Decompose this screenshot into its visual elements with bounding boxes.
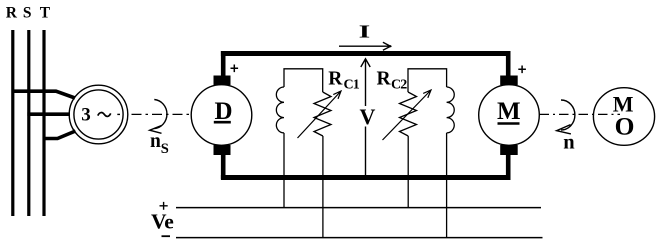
svg-text:R: R <box>6 5 18 22</box>
svg-text:O: O <box>615 111 635 140</box>
generator G1 label D underline <box>214 121 231 124</box>
wire coil2 bottom to Ve- <box>446 133 448 238</box>
rheostat arrow RC1 <box>298 91 342 138</box>
inductor L1 field coil of D <box>276 87 284 133</box>
shaft coupling M to MO dash-dot <box>540 113 621 115</box>
rheostat arrow RC2 <box>383 90 432 140</box>
wire bottom bus armature loop <box>221 175 511 180</box>
wire phase T vertical <box>42 30 45 216</box>
svg-text:C2: C2 <box>391 78 407 93</box>
motor M2 label M underline <box>498 122 520 125</box>
svg-text:I: I <box>359 22 371 41</box>
wire tap T to motor <box>43 131 76 139</box>
wire top bus armature loop <box>221 51 511 56</box>
wire RC2 bottom to Ve+ <box>407 136 409 208</box>
field branch 1 top wire <box>284 69 323 92</box>
svg-text:T: T <box>40 5 51 22</box>
polarity + at M <box>518 66 526 74</box>
rotation arrow n arc <box>561 100 575 130</box>
shaft coupling M1 to G1 dash-dot <box>117 113 120 115</box>
wire riser D top thick <box>221 51 226 77</box>
svg-text:n: n <box>563 132 575 154</box>
svg-text:S: S <box>161 141 169 157</box>
wire tap R to motor <box>12 91 76 98</box>
generator G1 bottom brush <box>214 145 231 155</box>
wire riser M top thick <box>506 51 511 77</box>
svg-text:R: R <box>328 69 343 90</box>
rotation arrow n head <box>557 125 571 134</box>
motor M2 bottom brush <box>500 145 518 155</box>
svg-text:C1: C1 <box>344 77 360 92</box>
svg-text:S: S <box>23 5 32 22</box>
motor M1 three-phase 3~ outer circle <box>69 85 128 144</box>
motor M2 circle M <box>479 85 540 146</box>
wire Ve positive rail <box>176 207 541 209</box>
arrow I <box>339 42 391 50</box>
wire coil1 bottom to Ve+ <box>283 133 285 208</box>
wire riser D bottom thick <box>221 154 226 179</box>
wire RC1 bottom to Ve- <box>322 136 324 238</box>
motor M2 top brush <box>500 76 518 86</box>
wire V arrow lower segment <box>365 127 367 176</box>
polarity - at Ve <box>162 235 171 237</box>
rotation arrow nS head <box>150 126 162 134</box>
load machine MO circle <box>593 88 654 146</box>
arrow V up <box>361 59 370 106</box>
inductor L2 field coil of M <box>447 87 455 133</box>
generator G1 top brush <box>214 76 231 86</box>
wire tap S to motor <box>27 112 70 116</box>
polarity + at Ve <box>160 202 168 210</box>
svg-text:M: M <box>497 98 521 125</box>
wire riser M bottom thick <box>506 154 511 179</box>
field branch 2 top wire <box>408 69 447 92</box>
svg-text:Ve: Ve <box>151 210 174 234</box>
svg-text:3: 3 <box>81 105 91 126</box>
rotation arrow nS arc <box>154 100 167 129</box>
svg-text:V: V <box>360 104 376 129</box>
wire phase R vertical <box>11 30 14 216</box>
polarity + at D <box>231 65 239 73</box>
svg-text:R: R <box>377 69 392 90</box>
motor M1 three-phase 3~ inner circle <box>74 90 123 139</box>
wire phase S vertical <box>27 30 30 216</box>
resistor RC2 zigzag <box>400 92 417 136</box>
motor M1 label ~ <box>98 113 111 117</box>
wire Ve negative rail <box>176 237 543 239</box>
resistor RC1 zigzag <box>314 92 331 136</box>
svg-text:n: n <box>150 131 161 152</box>
generator G1 circle D <box>191 85 252 146</box>
